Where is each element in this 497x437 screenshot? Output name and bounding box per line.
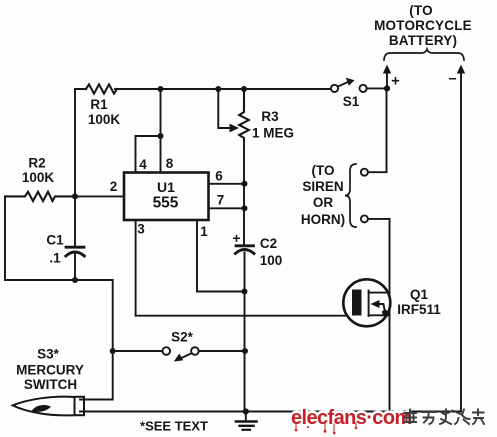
Q1 body-diode arrowhead: [371, 300, 380, 308]
svg-text:IRF511: IRF511: [397, 302, 441, 317]
wire left vertical rail: [74, 89, 76, 247]
brace over battery leads: [384, 49, 464, 60]
node pin 1 junction: [242, 289, 248, 295]
watermark chinese characters: [404, 410, 484, 425]
switch S1: [331, 82, 387, 93]
svg-text:OR: OR: [313, 195, 334, 210]
label R1 value 100K: [88, 97, 121, 127]
svg-text:555: 555: [153, 195, 179, 212]
label S1: [343, 94, 360, 109]
wire pin 7: [209, 207, 245, 209]
pin 4 label: [139, 157, 147, 172]
S3 mercury droplet: [32, 405, 52, 412]
svg-text:100: 100: [260, 253, 283, 268]
Q1 gate bar: [352, 290, 362, 316]
node junction pins4-8 tap on top rail: [158, 86, 164, 92]
svg-text:S1: S1: [343, 94, 360, 109]
pin 3 label: [137, 222, 145, 237]
svg-text:+: +: [391, 74, 399, 90]
node pin 7: [242, 205, 248, 211]
Q1 channel and leads: [369, 291, 390, 317]
svg-text:1 MEG: 1 MEG: [252, 126, 294, 141]
switch S3 mercury switch body: [13, 397, 84, 416]
svg-text:100K: 100K: [22, 170, 55, 185]
node ground junction: [243, 408, 249, 414]
svg-text:2: 2: [110, 179, 118, 194]
brace siren terminals: [345, 164, 356, 227]
resistor R2: [5, 192, 75, 201]
battery negative lead arrow: [460, 72, 462, 410]
wire battery plus down to siren terminal: [368, 88, 387, 172]
node junction pins4-8: [158, 133, 164, 139]
wire pins 4 and 8 branch: [136, 89, 161, 173]
label R2 value 100K: [22, 156, 55, 186]
label C2 value 100: [260, 236, 283, 268]
svg-text:R1: R1: [90, 97, 108, 112]
svg-text:(TO: (TO: [312, 163, 335, 178]
siren terminal upper: [361, 169, 368, 176]
svg-text:*SEE TEXT: *SEE TEXT: [140, 419, 208, 434]
label Q1 IRF511: [397, 287, 441, 317]
label S2: [171, 330, 194, 345]
wire bottom ground rail: [80, 411, 461, 413]
resistor R3 (rheostat): [239, 89, 249, 140]
ground symbol: [236, 412, 257, 430]
op-amp U1 555 IC box: [124, 173, 209, 221]
label C2 plus: [232, 230, 240, 246]
svg-text:1: 1: [200, 224, 208, 239]
label minus: [448, 71, 456, 87]
siren terminal lower: [361, 215, 368, 222]
node R3 top on rail: [241, 86, 247, 92]
wire top rail from top-left corner through R1 to S1: [75, 88, 330, 90]
svg-text:C2: C2: [260, 236, 277, 251]
svg-text:–: –: [448, 71, 456, 87]
svg-text:8: 8: [166, 156, 174, 171]
svg-text:MOTORCYCLE: MOTORCYCLE: [374, 18, 472, 33]
svg-text:U1: U1: [157, 179, 175, 195]
label R3 value 1 MEG: [252, 109, 294, 141]
wire R3 wiper with arrowhead: [218, 89, 231, 128]
svg-text:+: +: [232, 230, 240, 246]
svg-text:4: 4: [139, 157, 147, 172]
node Q1 source junction: [382, 310, 388, 316]
label (TO MOTORCYCLE BATTERY): [374, 3, 472, 48]
transistor Q1 IRF511 MOSFET: [343, 279, 390, 326]
pin 7 label: [217, 193, 225, 208]
svg-text:7: 7: [217, 193, 225, 208]
wire pin 1 to center rail: [197, 220, 245, 292]
svg-text:R3: R3: [261, 109, 279, 124]
wire pin 2 into IC: [75, 195, 124, 197]
svg-text:6: 6: [215, 169, 223, 184]
label plus: [391, 74, 399, 90]
capacitor C1: [66, 247, 85, 256]
node C1 bottom junction: [72, 277, 78, 283]
svg-text:R2: R2: [28, 156, 45, 171]
pin 6 label: [215, 169, 223, 184]
wire C1 bottom to lower-left rail: [74, 255, 76, 281]
elecfans.com watermark: [291, 407, 412, 434]
node R3 wiper tap: [215, 86, 221, 92]
svg-text:Q1: Q1: [410, 287, 429, 302]
svg-text:HORN): HORN): [301, 212, 345, 227]
resistor R1: [86, 84, 117, 93]
svg-text:S2*: S2*: [171, 330, 194, 345]
svg-text:(TO: (TO: [409, 3, 433, 18]
switch S2: [113, 347, 245, 358]
svg-text:C1: C1: [46, 233, 64, 248]
label SEE TEXT note: [140, 419, 208, 434]
svg-text:BATTERY): BATTERY): [389, 33, 457, 48]
wire pin 6: [209, 183, 245, 185]
svg-text:.1: .1: [49, 251, 61, 266]
label (TO SIREN OR HORN): [301, 163, 345, 227]
svg-text:MERCURY: MERCURY: [16, 363, 84, 378]
label U1 555: [153, 179, 179, 212]
label C1 value .1: [46, 233, 64, 266]
pin 8 label: [166, 156, 174, 171]
svg-text:3: 3: [137, 222, 145, 237]
node S2 left junction: [110, 348, 116, 354]
node S1 to battery junction: [384, 85, 390, 91]
svg-text:elecfans·com: elecfans·com: [291, 407, 412, 429]
node pin 6: [242, 181, 248, 187]
node S2 right junction: [242, 348, 248, 354]
wire pin 3 to MOSFET gate: [136, 220, 352, 316]
capacitor C2: [235, 246, 254, 254]
svg-text:SWITCH: SWITCH: [24, 377, 77, 392]
pin 2 label: [110, 179, 118, 194]
pin 1 label: [200, 224, 208, 239]
label S3 MERCURY SWITCH: [16, 347, 84, 393]
svg-text:100K: 100K: [88, 112, 121, 127]
node R2 C1 pin2 junction: [72, 193, 78, 199]
wire lower-left loop (R2 left down and across): [5, 196, 113, 399]
wire siren lower terminal to drain rail: [368, 219, 390, 411]
svg-text:SIREN: SIREN: [302, 179, 343, 194]
battery positive lead arrow: [386, 72, 388, 88]
wire main center vertical (R3 to C2 to ground): [243, 140, 246, 412]
svg-text:S3*: S3*: [37, 347, 60, 362]
